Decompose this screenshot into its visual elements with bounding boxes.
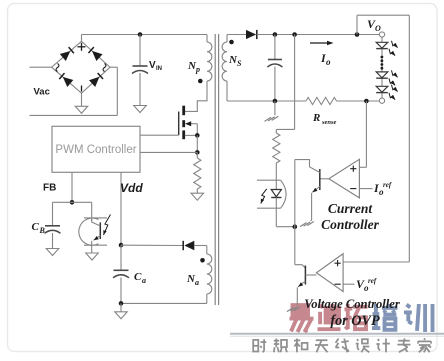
svg-text:C: C <box>134 271 142 283</box>
svg-text:Current: Current <box>328 201 374 216</box>
svg-text:C: C <box>32 221 40 233</box>
svg-text:sense: sense <box>321 119 337 126</box>
svg-text:S: S <box>237 59 242 68</box>
svg-text:O: O <box>375 24 381 33</box>
svg-text:IN: IN <box>156 66 162 72</box>
svg-text:ref: ref <box>368 277 377 285</box>
svg-text:ref: ref <box>383 181 392 189</box>
svg-text:PWM Controller: PWM Controller <box>55 144 136 156</box>
svg-text:o: o <box>326 57 331 67</box>
svg-text:V: V <box>149 60 156 71</box>
svg-text:for OVP: for OVP <box>330 313 380 329</box>
svg-text:a: a <box>195 278 199 287</box>
svg-text:FB: FB <box>43 183 56 194</box>
svg-text:Vdd: Vdd <box>120 181 143 195</box>
svg-text:p: p <box>195 65 200 74</box>
svg-text:Controller: Controller <box>321 217 380 232</box>
svg-text:a: a <box>142 276 146 285</box>
svg-text:Vac: Vac <box>34 87 50 98</box>
svg-text:Voltage Controller: Voltage Controller <box>304 297 400 311</box>
svg-text:R: R <box>312 112 320 124</box>
svg-text:B: B <box>39 226 46 235</box>
